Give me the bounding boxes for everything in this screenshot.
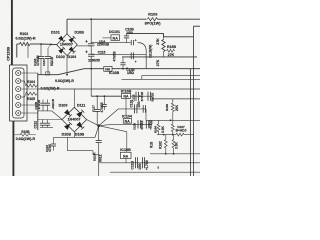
wire — [103, 37, 112, 39]
capacitor C120 label — [130, 100, 142, 108]
wire — [91, 42, 130, 44]
svg-text:D10B: D10B — [75, 31, 85, 35]
svg-text:1/50: 1/50 — [137, 101, 141, 107]
svg-text:C11B: C11B — [132, 123, 136, 130]
node junction — [40, 43, 42, 45]
diode bridge D108-D111 outline — [62, 107, 87, 132]
resistor R106 — [15, 133, 37, 136]
svg-text:R1B: R1B — [150, 141, 154, 148]
resistor R103 label — [148, 12, 157, 16]
wire — [37, 73, 39, 130]
diode D111 label — [77, 104, 85, 108]
diode D109 label — [59, 104, 68, 108]
capacitor C124 label — [132, 121, 144, 130]
node junction — [90, 68, 92, 70]
capacitor C115 — [85, 50, 94, 57]
capacitor C108 — [45, 100, 50, 111]
diode D104 label — [67, 55, 76, 59]
svg-text:R162: R162 — [159, 141, 163, 149]
wire — [66, 19, 68, 34]
node junction — [122, 68, 124, 70]
wire — [99, 162, 200, 164]
resistor R163 label — [175, 141, 179, 149]
resistor R166 label — [156, 38, 160, 45]
wire — [21, 88, 38, 90]
svg-text:C112: C112 — [34, 121, 38, 129]
svg-text:3PO(1W): 3PO(1W) — [145, 21, 162, 25]
node junction — [140, 123, 150, 125]
wire — [158, 18, 201, 20]
resistor R162 — [164, 135, 167, 154]
wire — [87, 120, 99, 126]
svg-text:0.0Ω(1W)-R: 0.0Ω(1W)-R — [15, 36, 35, 40]
resistor R105 value — [41, 87, 60, 91]
svg-text:+L7B0: +L7B0 — [145, 160, 149, 170]
capacitor C114 — [85, 39, 94, 46]
wire — [21, 112, 38, 114]
svg-text:5Ω/1B: 5Ω/1B — [50, 56, 54, 66]
resistor R169 — [171, 99, 174, 120]
wire — [40, 126, 53, 128]
svg-text:NA: NA — [123, 95, 129, 99]
capacitor C118 — [136, 92, 141, 101]
wire — [151, 96, 153, 99]
wire — [91, 95, 130, 97]
svg-text:2200/35: 2200/35 — [88, 58, 100, 62]
node junction — [165, 153, 175, 155]
wire — [157, 134, 176, 136]
ic IC105 — [121, 152, 132, 158]
svg-text:470/6: 470/6 — [48, 144, 52, 152]
wire — [190, 69, 192, 176]
diode D108 label — [75, 133, 85, 137]
wire — [118, 108, 146, 110]
diode D109t — [64, 109, 72, 117]
resistor R104 value — [55, 79, 74, 83]
diode D110t — [64, 122, 72, 130]
wire — [99, 109, 119, 126]
wire — [77, 45, 91, 47]
svg-text:CP120B: CP120B — [6, 46, 10, 60]
resistor R103 value — [145, 21, 162, 25]
wire — [122, 56, 197, 58]
svg-text:R169: R169 — [165, 104, 169, 111]
capacitor C122 label — [131, 160, 135, 169]
capacitor C114 label — [97, 39, 110, 46]
diode D101 label — [51, 31, 60, 35]
capacitor C112 — [45, 120, 50, 128]
diode D102 label — [56, 55, 65, 59]
svg-text:D104: D104 — [67, 55, 76, 59]
wire — [12, 121, 14, 176]
wire — [53, 136, 74, 138]
svg-text:470/6M: 470/6M — [36, 55, 40, 66]
resistor R166 — [162, 33, 165, 57]
resistor R105 label — [27, 97, 35, 101]
svg-text:+: + — [135, 39, 137, 43]
capacitor C126 label — [126, 66, 135, 75]
wire — [68, 150, 94, 152]
capacitor C104 label — [42, 56, 54, 66]
diode D111t — [76, 110, 84, 118]
wire — [125, 159, 127, 163]
resistor R102 value — [15, 36, 35, 40]
capacitor C119 — [148, 92, 151, 101]
resistor R105 — [21, 92, 37, 97]
svg-text:C120: C120 — [130, 100, 134, 108]
resistor chain label — [150, 141, 154, 148]
wire — [16, 44, 18, 58]
capacitor C113 — [51, 137, 56, 150]
capacitor C123 label — [138, 160, 149, 170]
svg-text:27K: 27K — [156, 38, 160, 45]
wire — [98, 143, 100, 176]
capacitor C118s — [102, 96, 107, 110]
svg-text:B+ADJ: B+ADJ — [176, 129, 187, 133]
diode bridge2 value 1N4007 — [68, 118, 81, 122]
ic DC101 label — [109, 30, 120, 34]
svg-text:D10B: D10B — [62, 133, 72, 137]
wire — [67, 18, 147, 20]
svg-text:27K: 27K — [156, 59, 160, 66]
capacitor C110 — [40, 120, 45, 128]
svg-text:C104: C104 — [42, 59, 46, 66]
diode D102 — [58, 47, 65, 54]
net label — [148, 45, 152, 58]
resistor R162 label — [159, 141, 163, 149]
resistor R163 — [172, 135, 175, 154]
svg-text:R16B: R16B — [167, 45, 176, 49]
svg-text:1N4007: 1N4007 — [60, 43, 73, 47]
wire — [91, 54, 146, 56]
svg-text:R105: R105 — [27, 97, 35, 101]
ic IC104 label — [122, 115, 133, 119]
svg-text:27K: 27K — [168, 53, 175, 57]
wire — [38, 88, 200, 90]
svg-text:C117: C117 — [92, 105, 96, 112]
capacitor C119 label — [151, 92, 155, 102]
wire — [90, 19, 92, 43]
resistor R103 — [148, 18, 158, 21]
wire — [125, 98, 127, 115]
wire — [152, 98, 200, 100]
capacitor C117 — [94, 96, 100, 126]
resistor R168 value — [168, 53, 175, 57]
connector CP102 pins — [16, 70, 21, 115]
svg-text:R103: R103 — [148, 12, 157, 16]
resistor R167 — [176, 133, 194, 136]
capacitor C113 label — [45, 144, 52, 152]
svg-text:D102: D102 — [56, 55, 65, 59]
capacitor C115 label — [98, 50, 106, 54]
wire — [90, 46, 92, 54]
svg-text:NA: NA — [113, 36, 119, 40]
capacitor C104 — [45, 44, 51, 74]
wire — [38, 119, 62, 121]
resistor R168 — [167, 49, 175, 52]
node junction — [50, 44, 52, 46]
svg-text:IC10B: IC10B — [109, 71, 120, 75]
resistor R168 label — [167, 45, 176, 49]
svg-text:470/6B: 470/6B — [100, 102, 104, 113]
wire — [93, 154, 99, 156]
wire — [67, 137, 69, 150]
svg-text:IC10B: IC10B — [120, 148, 131, 152]
wire — [52, 111, 62, 120]
capacitor C103 label — [33, 55, 40, 66]
svg-text:D109: D109 — [59, 104, 68, 108]
wire — [66, 56, 68, 75]
svg-text:C12B: C12B — [131, 160, 135, 169]
svg-text:3.9K: 3.9K — [161, 125, 165, 133]
node junction — [96, 95, 105, 97]
wire — [146, 119, 200, 121]
wire — [151, 120, 153, 124]
svg-text:DC101: DC101 — [109, 30, 120, 34]
capacitor C111 label — [113, 51, 117, 62]
capacitor C103 — [38, 44, 44, 74]
svg-text:+: + — [135, 60, 137, 64]
diode bridge value 1N4007 — [60, 43, 73, 47]
polarity mark — [45, 72, 49, 75]
svg-text:R104: R104 — [27, 80, 35, 84]
capacitor C127 — [143, 105, 145, 113]
resistor R106 label — [21, 130, 30, 134]
wire — [126, 132, 128, 153]
capacitor C106 label — [125, 28, 134, 35]
wire — [92, 151, 94, 155]
wire — [21, 104, 38, 106]
transistor Q101 junction — [97, 124, 100, 127]
node junction — [90, 18, 92, 20]
wire — [73, 132, 75, 138]
wire — [141, 76, 143, 80]
wire — [142, 75, 200, 77]
diode D104 — [69, 47, 76, 54]
wire — [11, 0, 13, 65]
node CP1205 label — [6, 46, 10, 60]
resistor R102 label — [20, 32, 29, 36]
svg-text:IC104: IC104 — [122, 115, 133, 119]
capacitor C111 — [131, 52, 137, 64]
resistor R106 value — [16, 137, 36, 141]
wire — [127, 32, 164, 34]
svg-text:0.0Ω(1W)-R: 0.0Ω(1W)-R — [16, 137, 36, 141]
capacitor C123 — [143, 157, 145, 168]
ic IC103 label — [121, 90, 132, 94]
wire — [21, 72, 38, 74]
wire — [90, 69, 92, 97]
svg-text:+5Ω/1B: +5Ω/1B — [51, 98, 55, 109]
capacitor C121 — [96, 141, 102, 143]
wire — [99, 124, 113, 125]
wire — [122, 78, 201, 80]
svg-text:1/50: 1/50 — [138, 163, 142, 170]
capacitor C106 — [124, 33, 129, 42]
capacitor C108 label — [51, 98, 55, 109]
wire — [95, 126, 99, 138]
wire — [113, 123, 152, 125]
svg-text:470/1B: 470/1B — [37, 99, 41, 110]
wire — [27, 44, 29, 58]
capacitor C107 label — [34, 99, 41, 110]
svg-text:20K: 20K — [175, 104, 179, 111]
ic IC104 — [123, 119, 131, 124]
svg-text:9012: 9012 — [98, 154, 102, 162]
wire — [150, 153, 200, 155]
wire — [110, 171, 200, 173]
wire — [73, 89, 75, 107]
diode D103 label — [75, 31, 85, 35]
capacitor C125 label — [148, 120, 152, 130]
ic IC102 label — [109, 71, 120, 75]
wire — [99, 126, 127, 132]
resistor R169 label — [165, 104, 179, 111]
capacitor C117 label — [92, 102, 105, 113]
capacitor C125 — [146, 120, 149, 128]
svg-text:D101: D101 — [51, 31, 60, 35]
wire — [145, 109, 147, 120]
wire — [90, 56, 92, 68]
svg-text:2200/3B: 2200/3B — [97, 43, 110, 47]
ic IC103 — [122, 93, 131, 98]
svg-text:NA: NA — [125, 119, 131, 123]
diode D101 — [58, 36, 65, 43]
wire — [193, 26, 195, 176]
node junction — [163, 134, 174, 136]
resistor R164 — [157, 120, 160, 134]
svg-text:R164: R164 — [153, 126, 157, 133]
resistor R164 label — [153, 125, 164, 133]
transistor D1105 label — [93, 153, 103, 162]
wire — [98, 126, 100, 141]
connector CP102 — [10, 65, 27, 121]
capacitor C118 label — [131, 91, 144, 102]
svg-text:1/50: 1/50 — [126, 31, 133, 35]
capacitor C122 — [136, 157, 138, 168]
resistor R104 label — [27, 80, 35, 84]
node junction — [170, 119, 172, 121]
capacitor C116 — [120, 57, 125, 69]
wire — [84, 68, 200, 70]
wire — [41, 43, 57, 46]
ic DC101 — [111, 35, 120, 41]
svg-text:470/3B: 470/3B — [113, 51, 117, 62]
capacitor C110 label — [34, 121, 38, 129]
svg-text:D111: D111 — [77, 104, 85, 108]
wire — [58, 69, 84, 75]
svg-text:IC10B: IC10B — [121, 90, 132, 94]
svg-text:3Ω1B(W): 3Ω1B(W) — [148, 45, 152, 58]
resistor R166 label2 — [156, 59, 160, 66]
resistor R167 label — [176, 125, 187, 132]
wire — [164, 36, 194, 38]
wire — [38, 110, 52, 112]
wire — [163, 33, 165, 36]
wire — [38, 74, 59, 76]
capacitor C109 — [131, 39, 137, 46]
wire — [138, 43, 147, 69]
capacitor C107 — [40, 100, 45, 111]
wire — [131, 95, 153, 97]
bottom label — [158, 168, 160, 170]
svg-text:NA: NA — [123, 154, 129, 158]
capacitor C115 value — [88, 58, 100, 62]
svg-text:5Ω/1B: 5Ω/1B — [151, 92, 155, 102]
resistor R102 — [17, 42, 41, 45]
svg-text:3.9K: 3.9K — [175, 141, 179, 149]
diode D108t — [76, 122, 84, 130]
svg-text:D10B: D10B — [75, 133, 85, 137]
node junction — [66, 74, 68, 76]
resistor R171 — [171, 120, 174, 134]
capacitor C124 — [138, 120, 141, 128]
capacitor C120 — [135, 104, 137, 113]
diode D103 — [69, 36, 76, 43]
svg-text:1/5Ω: 1/5Ω — [127, 71, 134, 75]
ic IC102 — [104, 66, 112, 71]
svg-text:1N4007: 1N4007 — [68, 118, 81, 122]
wire — [74, 136, 95, 138]
diode D110 label — [62, 133, 72, 137]
ic IC105 label — [120, 148, 131, 152]
resistor R104 — [21, 81, 38, 87]
wire — [194, 25, 201, 27]
diode bridge D101-D104 outline — [57, 34, 78, 56]
svg-text:0.0Ω(1W)-R: 0.0Ω(1W)-R — [55, 79, 74, 83]
svg-text:C115: C115 — [98, 50, 106, 54]
